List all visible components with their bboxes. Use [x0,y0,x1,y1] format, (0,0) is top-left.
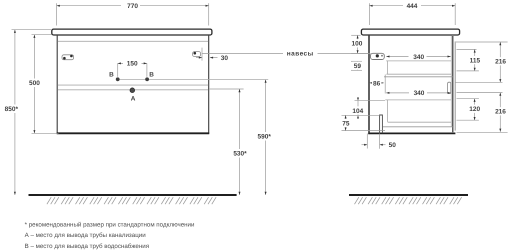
svg-text:444: 444 [407,3,418,10]
svg-text:навесы: навесы [287,50,314,57]
svg-text:500: 500 [29,80,40,87]
svg-text:A: A [131,96,136,103]
svg-text:B: B [109,71,114,78]
svg-text:115: 115 [470,58,481,65]
svg-text:340: 340 [414,90,425,97]
svg-text:А – место для вывода трубы кан: А – место для вывода трубы канализации [25,232,147,239]
svg-text:59: 59 [354,63,362,70]
svg-text:В – место для вывода труб водо: В – место для вывода труб водоснабжения [25,243,149,250]
svg-text:75: 75 [342,121,350,128]
svg-text:770: 770 [127,3,138,10]
svg-text:590*: 590* [258,134,272,141]
svg-text:850*: 850* [5,106,19,113]
svg-text:216: 216 [495,109,506,116]
svg-text:50: 50 [389,142,397,149]
svg-text:216: 216 [495,59,506,66]
svg-text:340: 340 [413,54,424,61]
svg-text:530*: 530* [233,151,247,158]
svg-text:86: 86 [373,80,381,87]
svg-text:104: 104 [352,108,363,115]
svg-text:* рекомендованный размер при с: * рекомендованный размер при стандартном… [25,221,195,228]
svg-text:30: 30 [221,55,229,62]
svg-text:B: B [149,71,154,78]
svg-text:100: 100 [351,41,362,48]
svg-text:120: 120 [469,106,480,113]
svg-text:150: 150 [127,61,138,68]
